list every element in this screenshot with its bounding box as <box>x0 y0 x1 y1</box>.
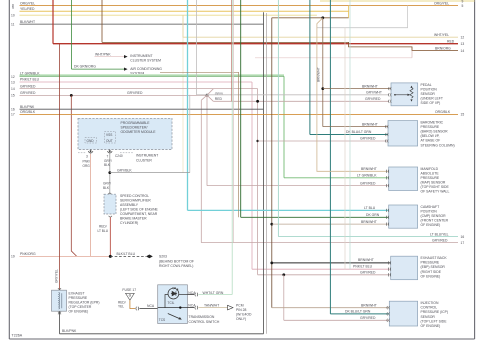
sensor EBP exhaust back pressure <box>388 256 447 280</box>
svg-text:CLUSTER SYSTEM: CLUSTER SYSTEM <box>130 59 161 63</box>
wire YEL top edge <box>320 0 475 2</box>
svg-text:9: 9 <box>462 0 464 4</box>
svg-text:PIN 28: PIN 28 <box>236 308 246 312</box>
wire grey companion vertical <box>265 13 267 334</box>
sensor CMP camshaft position <box>386 205 448 228</box>
svg-text:PEDAL: PEDAL <box>421 83 432 87</box>
wire BRN/WHT to CMP pin3 <box>272 223 389 225</box>
svg-text:BLK/LT BLU: BLK/LT BLU <box>117 252 136 256</box>
svg-text:(EBP) SENSOR: (EBP) SENSOR <box>421 265 446 269</box>
svg-text:EXHAUST: EXHAUST <box>69 292 85 296</box>
svg-text:OF ENGINE): OF ENGINE) <box>421 223 441 227</box>
svg-text:INSTRUMENT: INSTRUMENT <box>130 54 152 58</box>
svg-text:ASSEMBLY: ASSEMBLY <box>120 203 139 207</box>
component EPR exhaust pressure regulator <box>52 288 100 314</box>
svg-text:CONTROL SWITCH: CONTROL SWITCH <box>189 320 220 324</box>
svg-text:14: 14 <box>11 87 15 91</box>
svg-text:BLK/WHT: BLK/WHT <box>20 20 35 24</box>
svg-text:GRY/RED: GRY/RED <box>20 84 36 88</box>
wire GRY/RED pin15 to splice <box>11 91 207 98</box>
svg-text:RED/: RED/ <box>99 224 107 228</box>
svg-text:ORG/BLK: ORG/BLK <box>20 110 36 114</box>
svg-text:OUT: OUT <box>106 139 113 143</box>
svg-text:REGULATOR (EPR): REGULATOR (EPR) <box>69 301 100 305</box>
wire WHT/PNK faint y57.8 <box>411 51 413 58</box>
svg-text:AIR CONDITIONING: AIR CONDITIONING <box>130 67 162 71</box>
junction CMP brnwht <box>270 223 273 226</box>
svg-text:3: 3 <box>86 155 88 159</box>
svg-text:C240: C240 <box>115 154 123 158</box>
svg-text:TCIL: TCIL <box>168 301 175 305</box>
wire TAN/WHT to PCM arrow <box>198 303 227 307</box>
svg-text:RIGHT COWL PANEL): RIGHT COWL PANEL) <box>159 264 193 268</box>
wire pale teal right mid vertical <box>349 0 351 269</box>
svg-text:PRESSURE: PRESSURE <box>421 261 440 265</box>
svg-text:TRANSMISSION: TRANSMISSION <box>189 315 215 319</box>
svg-text:OF ENGINE): OF ENGINE) <box>421 324 441 328</box>
svg-text:POSITION: POSITION <box>421 210 438 214</box>
svg-text:19: 19 <box>11 255 15 259</box>
svg-text:15: 15 <box>11 94 15 98</box>
svg-text:PRESSURE: PRESSURE <box>69 296 88 300</box>
wire YEL/RED pin9 <box>12 6 349 11</box>
wire TCIL to WHT/LT GRN <box>173 287 196 295</box>
wire RED/YEL fuse to connector <box>118 300 135 308</box>
svg-text:WHT/LT GRN: WHT/LT GRN <box>203 291 224 295</box>
wire WHT/YEL to right pin12 <box>183 15 464 172</box>
wire GRY/WHT to pedal pin2 <box>196 0 389 95</box>
svg-text:TAN/WHT: TAN/WHT <box>204 303 219 307</box>
splice S203 connector symbol <box>146 255 194 269</box>
wire GRY/BLK up from module <box>189 95 191 173</box>
wire GRY/RED branch to MAP pin3 <box>206 95 208 185</box>
svg-text:FUSE 17: FUSE 17 <box>122 288 136 292</box>
svg-text:(UNDER LEFT: (UNDER LEFT <box>421 97 443 101</box>
sensor MAP manifold absolute pressure <box>386 167 449 194</box>
connector below servo <box>109 216 112 217</box>
svg-text:GRY/: GRY/ <box>104 159 112 163</box>
svg-text:GRY/YEL: GRY/YEL <box>55 269 59 283</box>
wire RED/LT BLU from servo <box>98 217 111 256</box>
svg-text:S203: S203 <box>159 255 167 259</box>
connector on TCS output <box>195 306 198 310</box>
svg-text:YEL: YEL <box>118 304 124 308</box>
wire GRY/RED down to EBP pin3 <box>258 274 391 276</box>
svg-text:GRY/: GRY/ <box>103 181 111 185</box>
svg-text:BRN/WHT: BRN/WHT <box>362 84 378 88</box>
svg-text:(BARO) SENSOR: (BARO) SENSOR <box>421 130 449 134</box>
svg-text:GRY/BLK: GRY/BLK <box>117 168 132 172</box>
svg-text:LT GRN/BLK: LT GRN/BLK <box>20 71 40 75</box>
wire dark red branch down to PNK/ORG <box>71 95 77 256</box>
svg-text:CYLINDER): CYLINDER) <box>120 221 138 225</box>
svg-text:LT BLU/YEL: LT BLU/YEL <box>430 232 449 236</box>
border frame bottom <box>9 338 474 340</box>
svg-text:10: 10 <box>11 13 15 17</box>
svg-text:OF ENGINE): OF ENGINE) <box>69 310 89 314</box>
junction splice node <box>109 255 112 258</box>
svg-text:SERVO/AMPLIFIER: SERVO/AMPLIFIER <box>120 199 151 203</box>
svg-text:ORG/YEL: ORG/YEL <box>434 1 449 5</box>
wire BRN/WHT to pedal pin1 and BARO pin1 <box>321 18 391 127</box>
svg-text:5: 5 <box>462 4 464 8</box>
svg-text:WHT/PNK: WHT/PNK <box>95 52 111 56</box>
svg-text:AT BASE OF: AT BASE OF <box>421 139 441 143</box>
svg-text:GRY/RED: GRY/RED <box>20 91 36 95</box>
op-amp pedal position sensor <box>389 83 443 106</box>
svg-text:ABSOLUTE: ABSOLUTE <box>421 172 440 176</box>
svg-text:PRESSURE: PRESSURE <box>421 125 440 129</box>
svg-text:(TOP CENTER: (TOP CENTER <box>69 305 92 309</box>
wire ORG/BLK pin17 to right pin15 <box>11 110 464 117</box>
svg-text:ORG/BLK: ORG/BLK <box>435 110 451 114</box>
svg-text:GRY/: GRY/ <box>215 92 223 96</box>
wire WHT/LT GRN from TCS up <box>198 0 232 295</box>
wire GRY/RED branch to pedal pin3 <box>213 100 389 102</box>
svg-text:BRN/WHT: BRN/WHT <box>317 67 321 82</box>
svg-text:PROGRAMMABLE: PROGRAMMABLE <box>121 121 151 125</box>
svg-text:RED: RED <box>447 39 455 43</box>
svg-text:BRN/WHT: BRN/WHT <box>361 303 377 307</box>
svg-text:INJECTION: INJECTION <box>421 301 439 305</box>
wire RED vertical from top <box>52 0 54 44</box>
svg-text:BLK: BLK <box>104 163 111 167</box>
pin 3 connector below module <box>86 150 93 159</box>
junction EBP grydred to ICP <box>282 273 285 276</box>
wire GRY/RED pin14 to BARO <box>11 84 388 274</box>
svg-text:LT GRN/BLK: LT GRN/BLK <box>357 174 377 178</box>
svg-text:16: 16 <box>461 235 465 239</box>
wire pale tan right mid vertical <box>344 28 346 270</box>
connector inline left of TCS <box>136 307 139 311</box>
svg-text:ORG: ORG <box>83 164 91 168</box>
wire RED vertical mid <box>231 0 233 101</box>
wire BLK vertical to bottom <box>263 12 265 334</box>
svg-text:GRY/RED: GRY/RED <box>360 271 376 275</box>
wire BLK/PNK bottom run to EPR <box>60 329 264 334</box>
svg-text:STEERING COLUMN): STEERING COLUMN) <box>421 143 455 147</box>
svg-text:(TOP RIGHT SIDE: (TOP RIGHT SIDE <box>421 185 450 189</box>
label transmission control switch <box>189 315 220 324</box>
svg-text:BLK/PNK: BLK/PNK <box>62 329 77 333</box>
pin 7 connector below module <box>107 150 123 159</box>
svg-text:NCA: NCA <box>147 304 155 308</box>
svg-text:SPEED CONTROL: SPEED CONTROL <box>120 194 149 198</box>
svg-text:PCM: PCM <box>236 304 244 308</box>
svg-text:ONLY): ONLY) <box>236 317 246 321</box>
wire TAN/WHT output <box>187 303 196 307</box>
svg-text:GRY/RED: GRY/RED <box>360 316 376 320</box>
svg-text:(BEHIND BOTTOM OF: (BEHIND BOTTOM OF <box>159 259 194 263</box>
svg-text:LT BLU: LT BLU <box>98 229 109 233</box>
wire DK BLU/LT GRN teal to BARO pin2 <box>310 0 388 135</box>
svg-text:(RIGHT SIDE: (RIGHT SIDE <box>421 270 442 274</box>
wire BLK/PNK from EPR down <box>59 311 61 334</box>
svg-text:11: 11 <box>11 23 15 27</box>
wire PNK/LT BLU pin13 to EBP <box>11 78 391 270</box>
svg-text:DK BLU/LT GRN: DK BLU/LT GRN <box>345 310 371 314</box>
wire DK BLU/LT GRN teal to ICP pin2 <box>330 0 389 314</box>
wire BRN/WHT tan to MAP pin1 with vertical label <box>317 18 389 172</box>
wire BLK/PNK pin16 <box>11 105 264 112</box>
wire LT BLU cyan to CMP pin1 <box>188 0 389 210</box>
wire PNK/ORG from module pin3 <box>83 154 91 257</box>
svg-text:OF ENGINE): OF ENGINE) <box>421 274 441 278</box>
svg-text:(W/ E4OD: (W/ E4OD <box>236 313 252 317</box>
wire BLK/LT BLU dashed to S203 <box>110 252 146 256</box>
wire BRN branch upper <box>160 72 239 217</box>
svg-text:POSITION: POSITION <box>421 87 438 91</box>
junction pedal gryred branch <box>256 100 259 103</box>
svg-text:DK GRN/ORG: DK GRN/ORG <box>74 64 96 68</box>
wire WHT/PNK to instrument cluster arrow <box>95 52 125 56</box>
svg-text:GRY/RED: GRY/RED <box>365 97 381 101</box>
junction GRY/BLK <box>108 171 111 174</box>
arrow to instrument cluster system <box>124 54 161 63</box>
svg-text:17: 17 <box>461 241 465 245</box>
svg-text:9: 9 <box>12 6 14 10</box>
svg-text:PRESSURE (ICP): PRESSURE (ICP) <box>421 310 449 314</box>
svg-text:BLK/PNK: BLK/PNK <box>20 105 35 109</box>
wire BRN/WHT to ICP pin1 <box>272 307 390 309</box>
arrow to air conditioning system <box>124 67 162 76</box>
border frame left <box>8 0 10 339</box>
splice GRY/RED fanout <box>201 89 223 102</box>
wire BRN/WHT dark to EBP pin1 <box>272 262 391 264</box>
svg-text:VSS: VSS <box>106 133 112 137</box>
wire pale pink vertical mid <box>233 0 235 243</box>
wire GRY/YEL dark red to EPR <box>55 44 60 291</box>
svg-text:(BELOW I/P,: (BELOW I/P, <box>421 134 440 138</box>
svg-text:PNK/LT BLU: PNK/LT BLU <box>20 78 40 82</box>
svg-text:ODOMETER MODULE: ODOMETER MODULE <box>121 130 157 134</box>
svg-text:TCS: TCS <box>159 318 165 322</box>
wire NCA into TCS <box>139 304 157 308</box>
wire pale grey top right L <box>317 6 408 28</box>
svg-text:GRY/WHT: GRY/WHT <box>366 91 382 95</box>
svg-text:WHT/YEL: WHT/YEL <box>434 33 449 37</box>
svg-text:(CMP) SENSOR: (CMP) SENSOR <box>421 214 447 218</box>
svg-text:PNK/ORG: PNK/ORG <box>20 252 36 256</box>
svg-text:CONTROL: CONTROL <box>421 306 438 310</box>
svg-text:GRY/RED: GRY/RED <box>127 91 143 95</box>
svg-text:PNK/LT BLU: PNK/LT BLU <box>353 265 373 269</box>
svg-text:LT BLU: LT BLU <box>364 206 376 210</box>
svg-text:SIDE OF I/P): SIDE OF I/P) <box>421 101 441 105</box>
svg-text:GND: GND <box>87 139 95 143</box>
svg-text:PNK/: PNK/ <box>83 159 91 163</box>
connector on TCIL output <box>195 293 198 297</box>
svg-text:CLUSTER: CLUSTER <box>136 158 152 162</box>
svg-text:CAMSHAFT: CAMSHAFT <box>421 205 440 209</box>
wire RED to right pin13 <box>53 39 464 46</box>
svg-text:INSTRUMENT: INSTRUMENT <box>136 154 158 158</box>
svg-text:(FRONT CENTER: (FRONT CENTER <box>421 219 449 223</box>
wire YEL/RED drop to BRN/WHT bus <box>348 6 350 18</box>
svg-text:13: 13 <box>11 80 15 84</box>
svg-text:12: 12 <box>461 35 465 39</box>
wire ORG/YEL pin8 to right pin5 <box>12 1 464 8</box>
wire GRY/BLK branch right and up <box>110 168 190 172</box>
wire DK GRN/ORG to AC arrow <box>72 0 125 69</box>
arrow open to PCM <box>228 304 252 322</box>
svg-text:(TOP LEFT SIDE: (TOP LEFT SIDE <box>421 319 448 323</box>
wire GRY/RED branch to right pin17 <box>201 100 464 245</box>
svg-text:COMPARTMENT, NEAR: COMPARTMENT, NEAR <box>120 212 158 216</box>
svg-text:SENSOR: SENSOR <box>421 315 436 319</box>
junction EBP brnwht <box>270 262 273 265</box>
svg-text:YEL/RED: YEL/RED <box>20 7 35 11</box>
svg-text:(LEFT SIDE OF ENGINE: (LEFT SIDE OF ENGINE <box>120 208 159 212</box>
svg-text:ORG/YEL: ORG/YEL <box>20 1 35 5</box>
svg-text:GRY/RED: GRY/RED <box>360 181 376 185</box>
sensor BARO barometric pressure <box>386 121 455 148</box>
border frame right <box>474 0 476 339</box>
svg-text:OF SAFETY WALL: OF SAFETY WALL <box>421 190 450 194</box>
sensor ICP injection control pressure <box>387 301 448 328</box>
junction BRN/WHT tap <box>321 16 324 19</box>
svg-text:BLK: BLK <box>103 186 110 190</box>
svg-text:BRN/WHT: BRN/WHT <box>361 167 377 171</box>
wire PNK/ORG pin19 <box>11 252 110 259</box>
svg-text:BRN/WHT: BRN/WHT <box>361 220 377 224</box>
svg-text:BRAKE MASTER: BRAKE MASTER <box>120 217 147 221</box>
svg-text:BAROMETRIC: BAROMETRIC <box>421 121 444 125</box>
svg-text:15: 15 <box>461 113 465 117</box>
wire GRY/BLK from module pin7 <box>104 154 112 194</box>
svg-text:SPEEDOMETER/: SPEEDOMETER/ <box>121 126 148 130</box>
svg-text:SENSOR: SENSOR <box>421 92 436 96</box>
svg-text:17: 17 <box>11 113 15 117</box>
label instrument cluster dashed <box>78 153 158 163</box>
svg-text:DK GRN: DK GRN <box>366 213 380 217</box>
fuse F17 <box>122 288 136 300</box>
svg-text:GRY/RED: GRY/RED <box>432 238 448 242</box>
svg-text:14: 14 <box>461 49 465 53</box>
svg-text:RED: RED <box>215 97 223 101</box>
module programmable speedometer odometer <box>78 118 172 149</box>
svg-text:T226A: T226A <box>12 334 23 338</box>
label GRY/BLK to servo <box>103 181 111 189</box>
svg-text:16: 16 <box>11 108 15 112</box>
wire BRN/WHT brown net vertical <box>271 18 273 308</box>
svg-text:PRESSURE: PRESSURE <box>421 176 440 180</box>
wire BLK/WHT pin11 <box>11 20 264 27</box>
component speed control servo <box>104 193 159 225</box>
svg-text:EXHAUST BACK: EXHAUST BACK <box>421 256 448 260</box>
wire GRY/RED down to ICP pin3 <box>283 275 285 321</box>
wire LT GRN/BLK pin12 to MAP <box>11 71 389 177</box>
svg-text:MANIFOLD: MANIFOLD <box>421 167 439 171</box>
wire DK GRN to CMP pin2 <box>241 0 389 217</box>
svg-text:GRY/RED: GRY/RED <box>360 136 376 140</box>
svg-text:12: 12 <box>11 75 15 79</box>
wire LT BLU/YEL to right pin16 <box>278 0 464 239</box>
component transmission control switch box <box>158 285 188 324</box>
wire BRN/WHT horizontal bus y17.8 <box>272 17 349 19</box>
wire YEL pin10 <box>11 13 317 17</box>
junction dot pin15 branch <box>70 94 73 97</box>
svg-text:(MAP) SENSOR: (MAP) SENSOR <box>421 181 446 185</box>
svg-text:BRN/ORG: BRN/ORG <box>435 46 451 50</box>
svg-text:BRN/WHT: BRN/WHT <box>362 122 378 126</box>
svg-text:BRN/WHT: BRN/WHT <box>358 258 374 262</box>
svg-text:13: 13 <box>461 42 465 46</box>
wire BRN/ORG brown from top <box>102 0 464 53</box>
